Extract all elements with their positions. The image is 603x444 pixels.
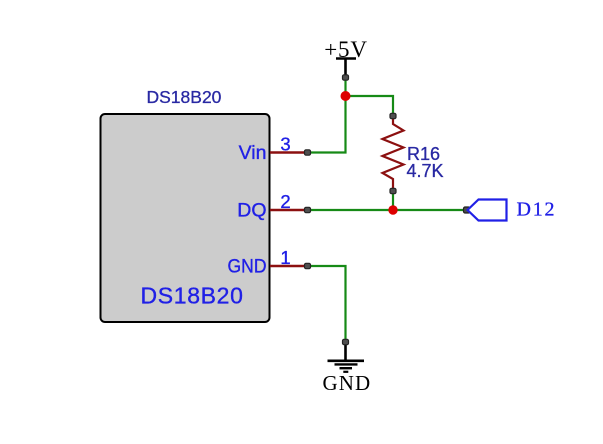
- junction dot at DQ node: [388, 205, 397, 214]
- component U1 DS18B20 body: [101, 114, 270, 322]
- terminal D12 flag: [468, 200, 507, 221]
- svg-text:DS18B20: DS18B20: [141, 283, 244, 309]
- pin marker Vin: [305, 150, 311, 155]
- pin marker DQ: [305, 207, 311, 212]
- svg-text:2: 2: [280, 191, 290, 212]
- pin 1 GND stub: [270, 265, 308, 268]
- svg-text:DS18B20: DS18B20: [147, 87, 222, 107]
- svg-text:GND: GND: [228, 256, 267, 278]
- power +5V symbol: [324, 37, 367, 78]
- pin marker ground top: [343, 339, 349, 344]
- svg-text:GND: GND: [323, 371, 372, 395]
- resistor R16: [383, 116, 404, 191]
- wire +5V pin to junction: [344, 78, 346, 97]
- junction dot at +5V node: [341, 91, 351, 101]
- svg-text:DQ: DQ: [237, 200, 266, 222]
- pin marker GND pin: [305, 263, 311, 268]
- svg-text:Vin: Vin: [239, 142, 267, 164]
- pin marker resistor bottom: [390, 188, 396, 193]
- svg-text:3: 3: [280, 134, 290, 155]
- pin marker resistor top: [390, 113, 396, 118]
- pin 2 DQ stub: [270, 209, 308, 212]
- svg-text:4.7K: 4.7K: [407, 161, 444, 181]
- wire DQ pin to terminal D12: [308, 209, 468, 211]
- wire junction to resistor top: [346, 96, 394, 116]
- pin marker at +5V: [343, 75, 349, 80]
- wire GND pin to ground: [308, 266, 346, 342]
- ground symbol: [323, 342, 372, 395]
- wire Vin pin to junction: [308, 96, 346, 153]
- pin 3 Vin stub: [270, 151, 308, 154]
- pin marker D12 tip: [464, 207, 471, 213]
- wire resistor bottom to DQ junction: [392, 191, 394, 210]
- svg-text:D12: D12: [517, 199, 557, 221]
- svg-text:1: 1: [280, 247, 290, 268]
